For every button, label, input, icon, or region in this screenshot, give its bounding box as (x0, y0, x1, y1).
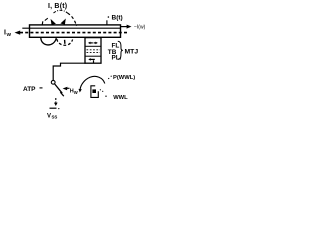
svg-text:B(t): B(t) (112, 15, 123, 22)
svg-text:SS: SS (52, 114, 58, 119)
svg-text:WWL: WWL (113, 95, 128, 101)
svg-text:W: W (74, 90, 78, 95)
svg-text:ATP: ATP (23, 86, 36, 93)
svg-text:I, B(t): I, B(t) (48, 3, 67, 10)
svg-text:−I(w): −I(w) (134, 25, 146, 31)
svg-text:V: V (47, 113, 51, 119)
svg-text:MTJ: MTJ (125, 49, 139, 56)
svg-text:W: W (7, 32, 12, 38)
svg-text:P(WWL): P(WWL) (113, 75, 135, 81)
